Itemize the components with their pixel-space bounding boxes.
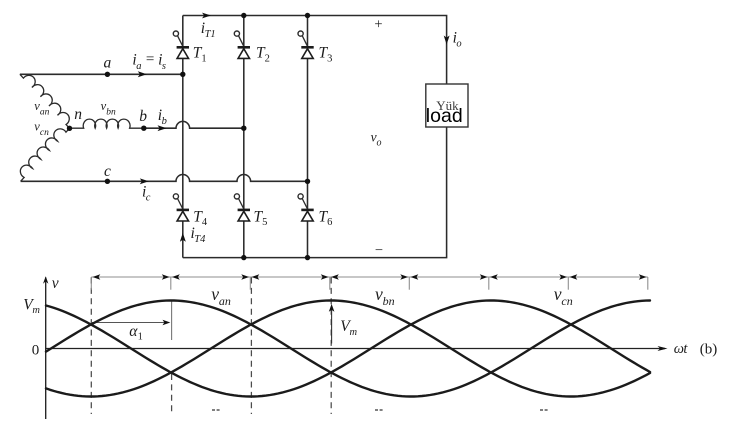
svg-text:an: an xyxy=(219,294,231,308)
svg-text:b: b xyxy=(162,116,167,127)
svg-text:T1: T1 xyxy=(205,29,216,40)
svg-text:bn: bn xyxy=(106,108,116,118)
svg-text:s: s xyxy=(162,61,166,72)
svg-text:c: c xyxy=(104,163,111,180)
svg-text:v: v xyxy=(52,275,59,292)
svg-text:1: 1 xyxy=(138,332,143,343)
svg-text:n: n xyxy=(74,106,82,123)
svg-text:a: a xyxy=(136,61,141,72)
svg-text:=: = xyxy=(146,52,154,68)
svg-text:4: 4 xyxy=(202,217,208,228)
svg-text:2: 2 xyxy=(265,53,270,64)
svg-text:m: m xyxy=(32,305,40,316)
svg-text:cn: cn xyxy=(561,294,572,308)
svg-text:o: o xyxy=(456,38,461,49)
svg-text:(b): (b) xyxy=(700,342,718,358)
svg-text:6: 6 xyxy=(327,217,332,228)
svg-text:T4: T4 xyxy=(194,234,206,245)
svg-text:5: 5 xyxy=(262,217,267,228)
svg-text:−: − xyxy=(375,242,383,258)
svg-text:load: load xyxy=(426,105,463,127)
svg-text:o: o xyxy=(377,138,382,149)
svg-text:an: an xyxy=(40,108,50,118)
svg-text:b: b xyxy=(139,108,147,125)
svg-text:a: a xyxy=(104,55,112,72)
svg-text:cn: cn xyxy=(40,128,49,138)
svg-text:0: 0 xyxy=(32,343,40,359)
svg-text:bn: bn xyxy=(383,294,395,308)
svg-text:3: 3 xyxy=(327,53,332,64)
svg-text:m: m xyxy=(350,327,358,338)
svg-text:+: + xyxy=(374,16,382,32)
svg-text:1: 1 xyxy=(201,53,206,64)
svg-text:c: c xyxy=(146,193,151,204)
